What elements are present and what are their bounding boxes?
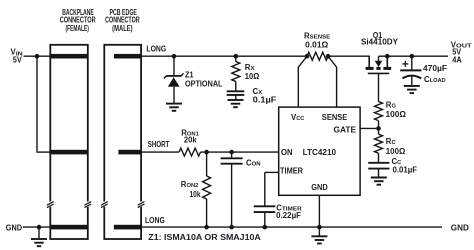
svg-text:4A: 4A xyxy=(452,55,462,64)
svg-text:SENSE: SENSE xyxy=(322,113,348,122)
svg-text:(MALE): (MALE) xyxy=(112,24,133,33)
svg-text:100Ω: 100Ω xyxy=(386,147,406,156)
svg-text:Z1: Z1 xyxy=(185,71,194,80)
svg-text:470µF: 470µF xyxy=(423,64,447,73)
svg-text:TIMER: TIMER xyxy=(280,166,303,175)
svg-text:ON: ON xyxy=(281,148,293,157)
svg-text:GND: GND xyxy=(6,223,23,232)
svg-text:GND: GND xyxy=(311,183,328,192)
svg-text:Z1: ISMA10A OR SMAJ10A: Z1: ISMA10A OR SMAJ10A xyxy=(148,233,261,242)
svg-text:10Ω: 10Ω xyxy=(245,72,259,81)
svg-text:LTC4210: LTC4210 xyxy=(303,148,337,157)
svg-text:GND: GND xyxy=(451,223,469,232)
svg-text:OPTIONAL: OPTIONAL xyxy=(185,80,223,89)
svg-text:5V: 5V xyxy=(13,55,23,64)
svg-text:0.01Ω: 0.01Ω xyxy=(305,41,328,50)
svg-text:20k: 20k xyxy=(184,135,197,144)
svg-text:GATE: GATE xyxy=(334,125,357,134)
svg-text:0.01µF: 0.01µF xyxy=(393,166,418,175)
svg-text:Si4410DY: Si4410DY xyxy=(361,38,399,47)
svg-text:100Ω: 100Ω xyxy=(386,110,407,119)
svg-text:LONG: LONG xyxy=(145,216,165,225)
svg-text:0.22µF: 0.22µF xyxy=(276,211,301,220)
svg-text:LONG: LONG xyxy=(146,44,166,53)
svg-text:10k: 10k xyxy=(190,190,202,199)
svg-text:0.1µF: 0.1µF xyxy=(253,96,277,105)
svg-text:SHORT: SHORT xyxy=(148,140,170,149)
svg-text:(FEMALE): (FEMALE) xyxy=(65,24,89,33)
